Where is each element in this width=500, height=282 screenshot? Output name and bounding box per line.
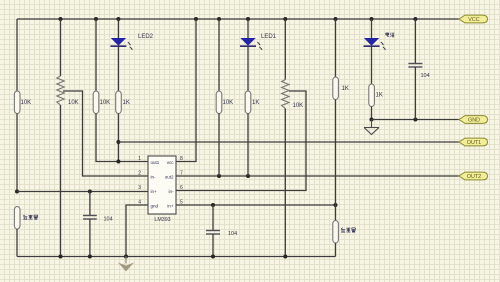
wire: left column from rail to R1 xyxy=(16,19,18,91)
wire: R1 bottom to sensor node xyxy=(16,114,18,192)
capacitor C1 104 xyxy=(83,192,113,257)
junction RP2 top on VCC rail xyxy=(283,17,287,21)
junction R2 top on VCC rail xyxy=(94,17,98,21)
resistor R6 1K xyxy=(333,77,349,100)
svg-text:LM393: LM393 xyxy=(154,217,170,223)
wire: pin 8 to VCC rail xyxy=(176,19,196,162)
wire: OUT1 net to port xyxy=(118,141,459,143)
svg-text:in+: in+ xyxy=(167,204,174,209)
wire: LED2 to R3 xyxy=(117,47,119,91)
wire: R5 bottom to out2 xyxy=(247,114,249,177)
resistor R7 1K xyxy=(369,84,383,107)
wire: R6 top feed xyxy=(335,19,337,77)
LED D1 xyxy=(240,34,277,50)
resistor R4 10K xyxy=(216,91,233,114)
ground symbol xyxy=(364,120,379,135)
node: cap C2 top xyxy=(211,203,215,207)
wire: R4 top feed xyxy=(218,19,220,91)
junction C3 top on VCC rail xyxy=(413,17,417,21)
wire: pin 6 to RP2 wiper xyxy=(176,91,306,191)
junction LED3 anode on VCC rail xyxy=(370,17,374,21)
svg-text:104: 104 xyxy=(421,73,430,79)
junction LED1 anode on VCC rail xyxy=(246,17,250,21)
svg-text:gnd: gnd xyxy=(151,204,159,209)
svg-text:10K: 10K xyxy=(100,100,111,106)
junction R6 top on VCC rail xyxy=(334,17,338,21)
svg-text:VCC: VCC xyxy=(468,17,479,23)
svg-text:104: 104 xyxy=(228,231,237,237)
svg-text:10K: 10K xyxy=(68,100,79,106)
wire: pot RP1 top feed xyxy=(60,19,62,76)
svg-text:GND: GND xyxy=(468,118,480,124)
ground arrow symbol xyxy=(118,257,134,272)
node: out1 / pin1 xyxy=(116,160,120,164)
junction C2 bottom on ground rail xyxy=(211,255,215,259)
svg-text:104: 104 xyxy=(104,217,113,223)
port GND xyxy=(459,116,488,124)
node: gnd rail left xyxy=(370,118,374,122)
LED D2 xyxy=(110,34,153,50)
capacitor C3 104 xyxy=(408,19,429,120)
svg-text:2: 2 xyxy=(138,171,141,177)
node: OUT1 tap xyxy=(116,140,120,144)
wire: RP1 wiper to pin 2 xyxy=(63,91,148,176)
node: R5 on out2 xyxy=(246,174,250,178)
resistor R1 10K xyxy=(14,91,31,114)
svg-text:1K: 1K xyxy=(376,93,383,99)
svg-text:10K: 10K xyxy=(223,100,234,106)
svg-text:1: 1 xyxy=(138,156,141,162)
pin numbers U1 xyxy=(138,156,183,206)
wire: GND rail to port xyxy=(372,119,460,121)
junction U1 pin4 on ground rail xyxy=(124,255,128,259)
junction RP2 bottom on ground rail xyxy=(283,255,287,259)
potentiometer RP1 10K xyxy=(57,76,79,106)
node: cap C1 top xyxy=(88,190,92,194)
junction LED2 anode on VCC rail xyxy=(116,17,120,21)
port OUT1 xyxy=(459,138,488,146)
pin names U1 xyxy=(151,160,175,209)
node: sensor1 / pin3 junction xyxy=(15,190,19,194)
resistor R5 1K xyxy=(245,91,259,114)
junction RP1 top on VCC rail xyxy=(59,17,63,21)
wire: R3 bottom to out1 net xyxy=(117,114,119,162)
svg-text:LED2: LED2 xyxy=(138,34,154,40)
wire: pin 3 net from sensor node xyxy=(17,191,148,193)
svg-text:LED1: LED1 xyxy=(261,34,277,40)
op-amp U1 LM393 body xyxy=(148,156,176,223)
wire: R2 top feed xyxy=(95,19,97,91)
wire: R7 bottom to gnd node xyxy=(371,107,373,120)
wire: LED1 to R5 xyxy=(247,47,249,91)
sensor RT1 (photoresistor) xyxy=(14,207,37,230)
node: R4 on out2 xyxy=(217,174,221,178)
svg-text:in-: in- xyxy=(151,175,157,180)
wire: pot RP1 bottom to ground rail xyxy=(60,105,62,257)
wire: sensor1 to bottom rail xyxy=(16,229,18,257)
wire: R2 bottom to pin 1 xyxy=(96,114,148,162)
junction R4 top on VCC rail xyxy=(217,17,221,21)
resistor R2 10K xyxy=(93,91,110,114)
wire: pin 5 net xyxy=(176,204,336,206)
wire: sensor2 to bottom rail xyxy=(335,243,337,257)
wire: pin 4 to ground xyxy=(126,205,148,257)
resistor R3 1K xyxy=(116,91,130,114)
svg-text:1K: 1K xyxy=(342,86,349,92)
sensor RT2 (photoresistor) xyxy=(333,221,356,244)
svg-text:10K: 10K xyxy=(293,103,304,109)
wire: bottom ground rail xyxy=(17,256,336,258)
wire: top VCC rail xyxy=(17,18,459,20)
junction U1 pin8 riser on VCC rail xyxy=(194,17,198,21)
svg-text:in+: in+ xyxy=(151,189,158,194)
svg-text:1K: 1K xyxy=(252,100,259,106)
junction RP1 bottom on ground rail xyxy=(59,255,63,259)
node: sensor2 top xyxy=(334,203,338,207)
wire: RP2 bottom to ground rail xyxy=(284,109,286,257)
capacitor C2 104 xyxy=(206,205,237,257)
svg-text:vcc: vcc xyxy=(167,160,175,165)
svg-text:10K: 10K xyxy=(21,100,32,106)
wire: LED2 column top feed xyxy=(117,19,119,39)
port VCC xyxy=(459,15,488,23)
svg-text:1K: 1K xyxy=(123,100,130,106)
wire: power LED top feed xyxy=(371,19,373,39)
wire: LED1 column top feed xyxy=(247,19,249,39)
node: cap C3 bottom xyxy=(413,118,417,122)
svg-text:out2: out2 xyxy=(165,175,174,180)
svg-text:OUT1: OUT1 xyxy=(467,140,481,146)
LED D3 power xyxy=(364,33,395,51)
potentiometer RP2 10K xyxy=(282,80,304,110)
junction C1 bottom on ground rail xyxy=(88,255,92,259)
wire: pot RP2 top feed xyxy=(284,19,286,80)
svg-text:3: 3 xyxy=(138,185,141,191)
port OUT2 xyxy=(459,172,488,180)
wire: pin 7 / OUT2 net to port xyxy=(176,175,459,177)
svg-text:out1: out1 xyxy=(151,160,160,165)
svg-text:OUT2: OUT2 xyxy=(467,174,481,180)
svg-text:in-: in- xyxy=(168,189,174,194)
wire: LED D3 to R7 xyxy=(371,47,373,84)
wire: R6 bottom to pin5 net xyxy=(335,100,337,221)
wire: R4 bottom to out2 xyxy=(218,114,220,177)
